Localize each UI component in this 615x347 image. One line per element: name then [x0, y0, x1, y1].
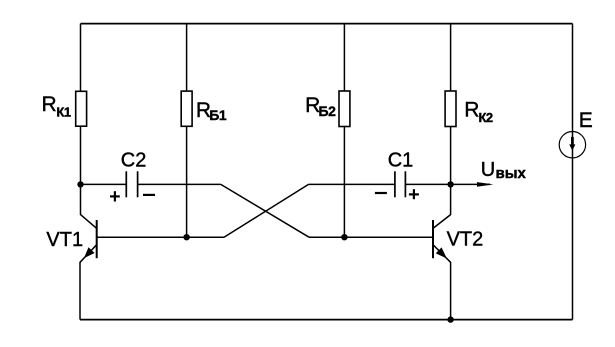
capacitor C1 left plate: [394, 171, 396, 197]
svg-text:К1: К1: [56, 104, 70, 119]
wire crossover diagonal VT1 base to C1: [224, 184, 309, 237]
transistor VT1 emitter arrowhead: [84, 247, 95, 258]
svg-text:U: U: [481, 159, 495, 181]
node VT1 base RB1 junction: [183, 234, 189, 240]
node VT2 collector output junction: [447, 181, 453, 187]
source E circle: [559, 132, 585, 158]
resistor RK1: [76, 91, 87, 126]
wire crossover diagonal C2 to VT2 base: [221, 184, 309, 237]
transistor VT2 base bar: [432, 220, 434, 258]
wire VT2 base horizontal: [309, 236, 433, 238]
wire VT2 emitter to bottom rail: [450, 262, 452, 320]
svg-text:вых: вых: [496, 165, 527, 182]
wire VT1 collector node to C2: [81, 183, 127, 185]
svg-text:C1: C1: [388, 150, 414, 172]
wire crossover to C1: [309, 183, 395, 185]
svg-text:К2: К2: [479, 110, 493, 125]
wire RK1 bottom to VT1 collector node: [80, 126, 82, 215]
transistor VT1 base bar: [96, 220, 98, 258]
node VT2 base RB2 junction: [341, 234, 347, 240]
wire RK2 column top: [450, 24, 452, 91]
svg-text:VT1: VT1: [46, 229, 83, 251]
wire VT2 collector diagonal: [433, 215, 451, 229]
wire bottom ground rail: [80, 319, 573, 321]
label C2 minus sign: [143, 194, 155, 196]
node VT2 emitter bottom rail junction: [447, 316, 453, 322]
wire VT1 emitter diagonal: [80, 245, 97, 263]
svg-text:R: R: [42, 93, 57, 116]
svg-text:Б2: Б2: [319, 103, 337, 119]
wire output arrow line: [451, 183, 490, 185]
svg-text:Б1: Б1: [209, 107, 227, 123]
svg-text:R: R: [464, 99, 479, 122]
wire left column top rail to RK1: [80, 24, 82, 92]
capacitor C2 right plate: [137, 171, 139, 197]
capacitor C2 left plate: [125, 171, 127, 197]
wire RB1 bottom to VT1 base node: [186, 126, 188, 237]
wire E source column: [572, 24, 574, 320]
wire RB2 column top: [343, 24, 345, 91]
svg-text:VT2: VT2: [447, 229, 484, 251]
source E internal arrow shaft: [571, 137, 574, 145]
label C1 minus sign: [375, 192, 387, 194]
resistor RK2: [445, 91, 456, 127]
wire VT1 base horizontal: [97, 236, 224, 238]
wire RB1 column top: [186, 24, 188, 92]
label C1 plus sign: [409, 189, 419, 199]
resistor RB2: [339, 91, 350, 127]
wire VT1 emitter to bottom rail: [79, 262, 81, 320]
transistor VT2 emitter arrowhead: [436, 247, 447, 258]
resistor RB1: [181, 91, 192, 126]
wire VT2 emitter diagonal: [433, 245, 451, 263]
wire C1 to VT2 collector node: [405, 183, 450, 185]
wire RB2 bottom to VT2 base node: [343, 127, 345, 238]
label C2 plus sign: [110, 191, 120, 201]
capacitor C1 right plate: [404, 171, 406, 197]
svg-text:C2: C2: [121, 150, 147, 172]
svg-text:E: E: [579, 109, 593, 132]
output arrowhead: [477, 182, 494, 187]
source E internal arrowhead: [569, 144, 575, 150]
wire RK2 bottom to VT2 collector node: [450, 127, 452, 215]
wire VT1 collector diagonal: [81, 215, 97, 229]
node VT1 collector junction: [77, 181, 83, 187]
wire top supply rail: [81, 23, 573, 25]
wire C2 to crossover: [138, 183, 221, 185]
